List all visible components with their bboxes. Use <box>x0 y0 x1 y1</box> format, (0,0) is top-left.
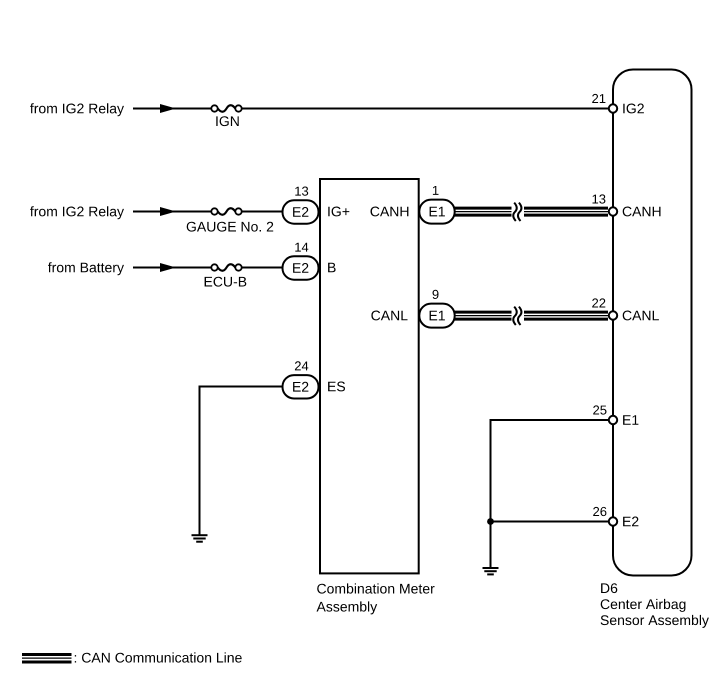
fuse label IGN <box>216 116 238 126</box>
wire row1 left segment <box>133 108 215 110</box>
pin 21 IG2 <box>609 104 617 112</box>
connector label E1 pin1 <box>430 207 445 217</box>
pin label B <box>328 263 336 273</box>
fuse label ECU-B <box>205 277 247 287</box>
connector E2 pin 24 (ES) <box>283 375 319 398</box>
pin label IG2 <box>623 104 644 114</box>
pin 25 E1 <box>609 416 617 424</box>
pin 13 CANH <box>609 207 617 215</box>
fuse label GAUGE No. 2 <box>187 222 274 232</box>
pin number 26 <box>593 507 606 516</box>
pin number 14 <box>295 243 308 252</box>
connector E2 pin 14 (B) <box>283 256 319 279</box>
connector label E2 pin14 <box>293 263 308 273</box>
pin number 1 <box>433 186 439 195</box>
wire row1 right segment <box>238 108 608 110</box>
wire CAN bus CANH <box>454 203 608 221</box>
label Assembly <box>317 601 378 614</box>
connector D6 Center Airbag Sensor Assembly body <box>613 70 692 576</box>
legend text <box>75 652 242 662</box>
label D6 Center Airbag Sensor Assembly <box>0 0 1 1</box>
connector E1 pin 1 (CANH) <box>419 200 454 224</box>
label Combination Meter <box>317 583 434 593</box>
arrow row3 <box>160 263 176 272</box>
pin label CANL sensor side <box>623 311 659 321</box>
label Combination Meter Assembly <box>0 0 1 1</box>
connector label E2 pin24 <box>293 382 308 392</box>
label D6 <box>601 583 617 593</box>
text from IG2 Relay row2 <box>30 206 124 219</box>
pin label ES <box>328 382 345 392</box>
connector E1 pin 9 (CANL) <box>419 304 454 328</box>
label Sensor Assembly <box>601 615 709 628</box>
wire CAN bus CANL <box>454 307 608 325</box>
pin label CANH meter side <box>371 207 409 217</box>
ground (sensor) <box>483 568 499 574</box>
wire ES to ground <box>200 387 291 536</box>
wire row2 to connector E2 <box>238 211 290 213</box>
pin number 9 <box>433 290 439 299</box>
pin 26 E2 <box>609 517 617 525</box>
legend CAN Communication Line <box>22 655 72 663</box>
wire row2 left segment <box>133 211 215 213</box>
junction <box>487 518 494 525</box>
fuse IGN <box>211 105 241 111</box>
label Center Airbag <box>601 599 686 612</box>
pin number 13 (E2) <box>295 187 308 196</box>
arrow row1 <box>160 104 176 113</box>
pin label E2 sensor <box>623 517 638 527</box>
wire pin 25 E1 to ground bus <box>491 420 609 522</box>
pin number 25 <box>593 405 606 414</box>
pin label IG+ <box>328 207 349 217</box>
pin number 22 <box>592 298 605 307</box>
fuse GAUGE No. 2 <box>211 208 241 214</box>
combination meter assembly box <box>320 179 419 573</box>
connector label E2 pin13 <box>293 207 308 217</box>
arrow row2 <box>160 207 176 216</box>
pin number 24 <box>295 361 308 370</box>
pin label CANH sensor side <box>623 207 661 217</box>
text from IG2 Relay row1 <box>30 103 124 116</box>
pin 22 CANL <box>609 311 617 319</box>
connector E2 pin 13 (IG+) <box>283 200 319 223</box>
pin number 21 <box>592 94 605 103</box>
fuse ECU-B <box>211 264 241 270</box>
ground (meter ES) <box>192 535 208 542</box>
connector label E1 pin9 <box>430 311 445 321</box>
text from Battery <box>48 262 124 275</box>
pin number 13 (sensor) <box>593 194 606 203</box>
pin label E1 sensor <box>623 415 638 425</box>
wire row3 to connector E2 <box>238 267 290 269</box>
wire row3 left segment <box>133 267 215 269</box>
wire pin 26 E2 to ground bus <box>491 522 609 568</box>
pin label CANL meter side <box>371 311 407 321</box>
